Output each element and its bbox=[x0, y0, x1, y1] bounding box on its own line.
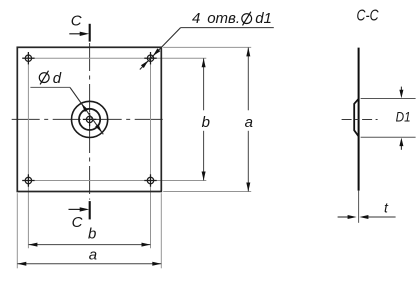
leader line to top-right corner hole bbox=[140, 28, 181, 70]
section view: extension line below plate for t bbox=[358, 191, 360, 223]
section mark C top: thick stroke bbox=[89, 24, 91, 42]
corner hole bottom-right bbox=[144, 174, 156, 186]
dimension D1 top arrow bbox=[400, 87, 402, 92]
extension line top of D1 bbox=[361, 98, 416, 100]
node: hole row bottom centerline y=180 bbox=[23, 180, 207, 182]
svg-text:C: C bbox=[71, 13, 82, 30]
svg-text:C: C bbox=[72, 214, 83, 231]
dimension b bottom arrowheads bbox=[28, 243, 37, 247]
section view: plate body thick line bbox=[358, 48, 360, 191]
svg-text:отв.: отв. bbox=[207, 10, 240, 27]
arrowhead on outer circle lower-right bbox=[95, 124, 102, 133]
corner hole top-left bbox=[22, 52, 34, 64]
dimension b bottom line bbox=[28, 244, 150, 246]
svg-text:a: a bbox=[245, 114, 253, 131]
extension line bottom of D1 bbox=[361, 136, 416, 138]
node: hole row top centerline y=58 bbox=[23, 57, 207, 59]
svg-text:a: a bbox=[89, 246, 97, 263]
svg-text:t: t bbox=[384, 200, 389, 216]
arrowhead pointing to corner hole from lower-left bbox=[141, 61, 148, 69]
label 4 holes underline bbox=[181, 27, 274, 29]
central hole middle circle bbox=[79, 109, 100, 130]
dimension a vertical line bbox=[247, 47, 249, 191]
svg-text:C-C: C-C bbox=[357, 6, 380, 24]
arrowhead on outer circle upper-left bbox=[81, 103, 88, 112]
dimension t right arrow bbox=[368, 216, 396, 218]
extension line left edge to bottom dimension a bbox=[16, 193, 18, 268]
svg-text:D1: D1 bbox=[396, 108, 411, 124]
section mark C bottom: thick stroke bbox=[89, 201, 91, 219]
label Od underline bbox=[30, 86, 70, 88]
svg-text:d1: d1 bbox=[255, 10, 272, 27]
dimension b vertical arrowheads bbox=[202, 58, 206, 67]
dimension b vertical line bbox=[203, 58, 205, 180]
wire: vertical centerline of plate bbox=[89, 43, 91, 200]
svg-text:4: 4 bbox=[192, 10, 200, 27]
dimension t left arrow bbox=[338, 216, 349, 218]
central hole inner circle bbox=[83, 113, 97, 127]
section mark C top: view-direction arrow bbox=[69, 33, 81, 35]
label Od diameter symbol bbox=[39, 71, 49, 85]
section mark C bottom: view-direction arrow bbox=[69, 208, 81, 210]
wire: horizontal centerline of plate bbox=[12, 118, 165, 120]
dimension D1 bottom arrow bbox=[400, 144, 402, 150]
section view: boss bulge outline bbox=[354, 99, 358, 137]
node: hole column left centerline x=28 bbox=[27, 53, 29, 249]
corner hole top-right bbox=[144, 52, 156, 64]
plate outline square bbox=[17, 47, 161, 191]
svg-text:d: d bbox=[53, 70, 62, 87]
node: hole column right centerline x=150 bbox=[150, 53, 152, 249]
extension line bottom edge to dimension a bbox=[163, 191, 251, 193]
leader line of label Od (diameter dimension across central hole) bbox=[70, 87, 103, 134]
section view: horizontal centerline bbox=[342, 119, 378, 121]
svg-text:b: b bbox=[202, 114, 210, 131]
central hole outer circle bbox=[72, 101, 108, 137]
arrowhead pointing to corner hole from upper-right bbox=[153, 48, 160, 56]
svg-text:b: b bbox=[88, 226, 96, 243]
dimension a bottom arrowheads bbox=[17, 262, 26, 266]
dimension a vertical arrowheads bbox=[246, 47, 250, 56]
label 4 holes diameter symbol bbox=[242, 12, 252, 26]
dimension a bottom line bbox=[17, 263, 161, 265]
extension line top edge to dimension a bbox=[163, 46, 251, 48]
corner hole bottom-left bbox=[22, 174, 34, 186]
extension line right edge to bottom dimension a bbox=[160, 193, 162, 268]
